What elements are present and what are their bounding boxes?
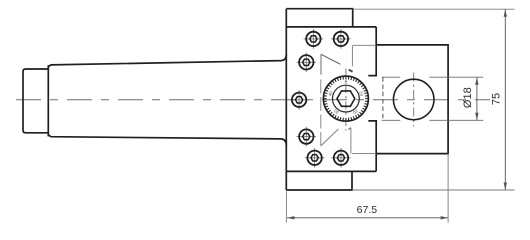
svg-text:67.5: 67.5 [357, 204, 378, 216]
hex key chamfer upper diagonal [321, 54, 340, 64]
taper small end face [47, 65, 49, 136]
bore vertical centerline [413, 73, 415, 127]
screw E hex socket [303, 133, 310, 139]
screw G hex socket [337, 155, 344, 161]
hidden bore line [382, 77, 384, 120]
svg-text:75: 75 [491, 93, 503, 105]
screw D head [292, 93, 306, 107]
screw C hex socket [303, 59, 310, 65]
screw F head [307, 151, 321, 165]
dim 75 top extension [353, 8, 515, 10]
dim 18 line [476, 77, 478, 120]
screw E head [299, 129, 313, 143]
dial vertical centerline [345, 69, 347, 131]
dim 67.5 line [287, 217, 448, 219]
hex key phantom vertical line [320, 54, 322, 74]
taper body bottom edge [48, 135, 286, 145]
bottom leader to dial [352, 153, 376, 155]
hex key chamfer lower diagonal [321, 129, 339, 146]
screw A head [306, 32, 320, 46]
screw C head [299, 55, 313, 69]
screw C centerlines [297, 61, 317, 63]
bore circle (Ø18) [393, 79, 434, 120]
flange top edge [286, 26, 376, 28]
screw A centerlines [304, 38, 324, 40]
screw F hex socket [311, 155, 318, 161]
right block outline [376, 45, 448, 154]
dim 18 top extension [429, 76, 483, 78]
screw D centerlines [289, 99, 309, 101]
dim 18 top tangent line left segment [382, 76, 401, 78]
dim 75 line [504, 9, 506, 190]
flange left edge [285, 9, 287, 190]
svg-text:Ø18: Ø18 [462, 87, 474, 108]
screw B head [334, 32, 348, 46]
main horizontal centerline [16, 99, 490, 101]
dial outer circle [323, 76, 368, 121]
screw G head [334, 151, 348, 165]
taper body top edge [48, 55, 286, 67]
dial hex socket [337, 91, 355, 106]
screw E centerlines [297, 136, 317, 138]
flange right edge upper [368, 27, 376, 76]
dim 18 bottom tangent line left segment [382, 119, 401, 121]
dim 18 bottom extension [429, 119, 483, 121]
screw D hex socket [295, 97, 302, 103]
bottom tab [286, 171, 352, 190]
top tab [286, 9, 352, 27]
flange bottom edge [286, 170, 376, 172]
dial knurl ticks [324, 76, 369, 121]
dial inner circle [333, 85, 360, 112]
top leader to dial [353, 44, 376, 46]
tang end cap [23, 69, 48, 133]
dim 75 bottom extension [352, 189, 515, 191]
dim 67.5 right extension [447, 154, 449, 223]
screw B centerlines [331, 38, 351, 40]
screw B hex socket [337, 36, 344, 42]
flange right edge lower with notch [368, 121, 376, 171]
dim 67.5 left extension [285, 190, 287, 223]
svg-text:0: 0 [345, 80, 348, 85]
screw G centerlines [331, 157, 351, 159]
screw F centerlines [305, 157, 325, 159]
screw A hex socket [310, 36, 317, 42]
